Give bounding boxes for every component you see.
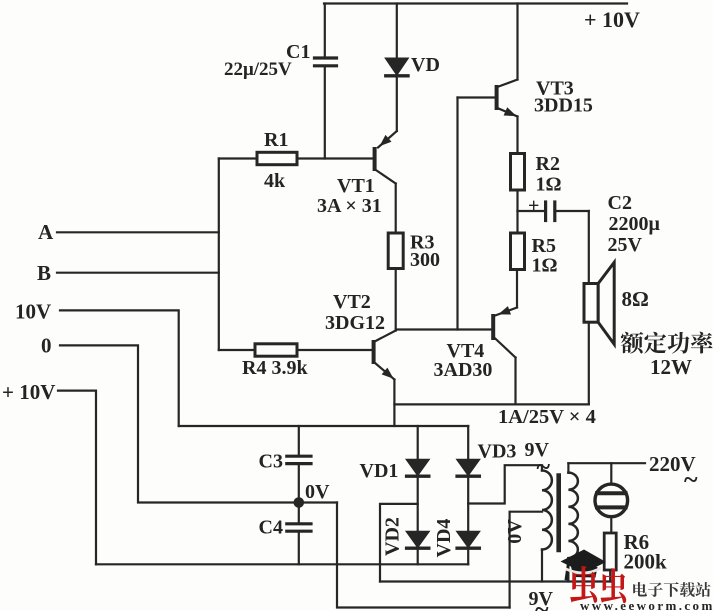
wire AC node 1 (VD1/VD2 midpoint) xyxy=(380,504,418,582)
svg-text:C3: C3 xyxy=(259,451,283,473)
svg-text:4k: 4k xyxy=(264,170,286,192)
resistor R5 1ohm xyxy=(516,211,518,233)
svg-text:0V: 0V xyxy=(504,519,526,544)
diode VD3 xyxy=(457,460,479,476)
resistor R1 4k xyxy=(257,152,297,164)
wire centre tap 0V xyxy=(510,512,542,608)
svg-text:2200μ: 2200μ xyxy=(609,213,661,235)
diode VD1 xyxy=(407,460,429,476)
capacitor C1 xyxy=(315,58,337,66)
wire VD3 to VD4 xyxy=(467,478,469,532)
node +10V bottom input label xyxy=(2,380,55,404)
node 10V input label xyxy=(15,300,51,324)
wire VD top vertical xyxy=(396,4,398,59)
node A label xyxy=(38,220,54,244)
svg-text:~: ~ xyxy=(537,452,551,481)
svg-text:R4 3.9k: R4 3.9k xyxy=(242,357,308,379)
node 220V label xyxy=(649,452,698,494)
capacitor C4 xyxy=(298,503,300,523)
svg-text:1A/25V × 4: 1A/25V × 4 xyxy=(498,406,596,428)
wire C1 top vertical xyxy=(324,4,326,57)
svg-text:VD3: VD3 xyxy=(478,441,517,463)
wire VD1 to VD2 xyxy=(417,478,419,532)
svg-text:3DD15: 3DD15 xyxy=(534,95,593,117)
svg-text:VT1: VT1 xyxy=(337,175,375,197)
label rated power CJK xyxy=(621,332,713,354)
wire output bottom line xyxy=(394,403,588,405)
resistor R6 200k xyxy=(604,533,616,570)
node 0V tap label xyxy=(504,519,526,544)
label 1A/25V x4 xyxy=(498,406,596,428)
wire C2 to speaker top xyxy=(555,210,589,212)
wire 10V input xyxy=(60,310,179,426)
transformer secondary winding xyxy=(542,470,552,549)
wire VT1 collector to R3 xyxy=(395,184,397,234)
wire primary top to 220V xyxy=(567,463,569,472)
transformer core xyxy=(556,476,561,551)
wire R5 to VT4 emitter xyxy=(516,270,518,308)
wire +10V top rail xyxy=(324,2,627,4)
svg-text:R1: R1 xyxy=(264,129,288,151)
transistor VT2 (3DG12 NPN) xyxy=(372,331,396,380)
diode VD2 xyxy=(407,532,429,548)
svg-text:22μ/25V: 22μ/25V xyxy=(224,59,292,80)
wire input A xyxy=(57,231,219,233)
wire VT4 base line xyxy=(396,328,492,330)
resistor R2 1ohm xyxy=(511,154,525,191)
node 0V junction dot xyxy=(294,497,305,508)
svg-text:200k: 200k xyxy=(624,550,668,574)
wire VD1 top xyxy=(417,426,419,460)
wire 0V to transformer centre tap xyxy=(337,503,510,608)
svg-text:VD: VD xyxy=(411,54,440,76)
resistor R4 3.9k xyxy=(255,344,297,356)
svg-text:1Ω: 1Ω xyxy=(532,255,558,277)
wire VD4 bottom xyxy=(467,550,469,565)
svg-text:VD2: VD2 xyxy=(381,517,403,556)
node 9V top label xyxy=(525,439,551,481)
node 0 input label xyxy=(41,334,52,358)
lamp indicator xyxy=(610,463,612,484)
wire R2 to output node xyxy=(516,190,518,211)
watermark site name CJK xyxy=(633,582,710,597)
wire output node to C2 xyxy=(518,210,544,212)
wire R4 base line xyxy=(219,349,372,351)
resistor R3 300 xyxy=(388,233,403,269)
wire R6 bottom xyxy=(609,570,611,582)
diode VD4 xyxy=(457,532,479,548)
wire secondary bottom to 9V line xyxy=(541,550,543,582)
wire VD to VT1 emitter xyxy=(396,77,398,132)
svg-text:C4: C4 xyxy=(259,517,283,539)
svg-text:VD4: VD4 xyxy=(433,519,455,558)
wire VT2 emitter vertical xyxy=(393,380,395,427)
svg-text:3AD30: 3AD30 xyxy=(434,359,493,381)
wire left input bus xyxy=(218,159,220,351)
speaker 8ohm xyxy=(584,262,614,344)
wire R1 base line xyxy=(219,157,373,159)
wire VD3 top xyxy=(467,426,469,460)
transistor VT3 (3DD15 NPN) xyxy=(495,80,518,117)
svg-text:0V: 0V xyxy=(305,481,330,503)
svg-text:0: 0 xyxy=(41,334,52,358)
svg-text:www.eeworm.com: www.eeworm.com xyxy=(580,598,713,611)
watermark bug logo xyxy=(570,566,626,603)
wire VT3 emitter to R2 xyxy=(516,117,518,154)
wire VT3 collector vertical xyxy=(516,4,518,80)
svg-text:A: A xyxy=(38,220,54,244)
wire VT4 collector vertical xyxy=(514,358,516,405)
node B label xyxy=(37,261,51,285)
svg-text:R2: R2 xyxy=(536,153,560,175)
svg-text:VD1: VD1 xyxy=(360,460,399,482)
diode VD xyxy=(386,59,408,76)
svg-text:+ 10V: + 10V xyxy=(584,7,640,32)
svg-text:+: + xyxy=(528,195,539,217)
svg-text:300: 300 xyxy=(410,249,440,271)
svg-text:B: B xyxy=(37,261,51,285)
svg-text:10V: 10V xyxy=(15,300,51,324)
wire rectifier plus rail 10V xyxy=(179,425,469,427)
svg-text:1Ω: 1Ω xyxy=(536,174,562,196)
node 9V bottom label xyxy=(529,588,554,611)
wire VT3 base line xyxy=(458,96,495,98)
wire 0 input to 0V node xyxy=(60,345,337,502)
transformer primary winding xyxy=(568,473,578,558)
wire primary bottom xyxy=(567,558,569,581)
wire R3 to driver node xyxy=(395,269,397,331)
watermark url xyxy=(580,598,713,611)
wire rectifier minus rail xyxy=(96,563,468,565)
svg-text:3A × 31: 3A × 31 xyxy=(317,195,382,217)
node +10V label xyxy=(584,7,640,32)
capacitor C3 xyxy=(298,426,300,455)
wire C1 bottom vertical xyxy=(324,68,326,159)
transistor VT1 (3AX31 PNP) xyxy=(373,131,397,184)
wire AC node 2 (VD3/VD4 midpoint) to 9V top xyxy=(468,465,542,503)
svg-text:+ 10V: + 10V xyxy=(2,380,55,404)
svg-text:8Ω: 8Ω xyxy=(622,287,649,311)
svg-text:~: ~ xyxy=(684,465,698,494)
svg-text:~: ~ xyxy=(535,595,549,611)
svg-text:VT2: VT2 xyxy=(333,291,371,313)
wire +10V bottom input xyxy=(58,391,96,565)
wire input B xyxy=(57,272,219,274)
svg-text:12W: 12W xyxy=(650,355,692,379)
wire VT3 base coupling vertical xyxy=(456,98,458,330)
svg-text:3DG12: 3DG12 xyxy=(325,312,385,334)
capacitor C2 2200u polarity + xyxy=(528,195,539,217)
transistor VT4 (3AD30 PNP) xyxy=(491,306,517,357)
svg-text:C2: C2 xyxy=(608,192,632,214)
wire 9V secondary bottom line xyxy=(380,580,611,582)
watermark graduation cap xyxy=(561,550,607,581)
svg-text:25V: 25V xyxy=(608,234,643,256)
wire VD2 bottom xyxy=(417,550,419,565)
